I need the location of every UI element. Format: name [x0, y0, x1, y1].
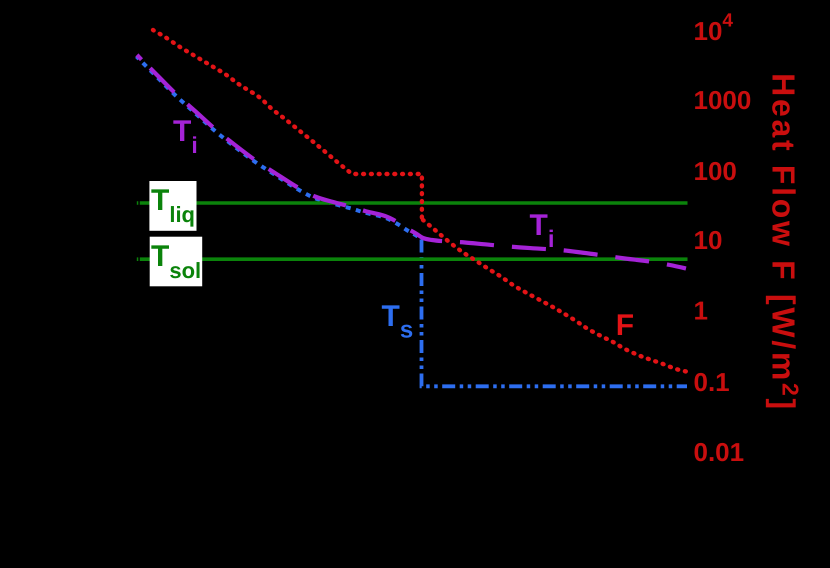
svg-text:0.1: 0.1 — [694, 367, 730, 397]
svg-text:1000: 1000 — [694, 85, 752, 115]
svg-text:F: F — [616, 309, 634, 342]
svg-text:100: 100 — [694, 156, 737, 186]
svg-text:Heat Flow F [W/m2]: Heat Flow F [W/m2] — [766, 73, 804, 412]
svg-text:10: 10 — [694, 225, 723, 255]
svg-text:0.01: 0.01 — [694, 437, 745, 467]
svg-text:1: 1 — [694, 296, 708, 326]
